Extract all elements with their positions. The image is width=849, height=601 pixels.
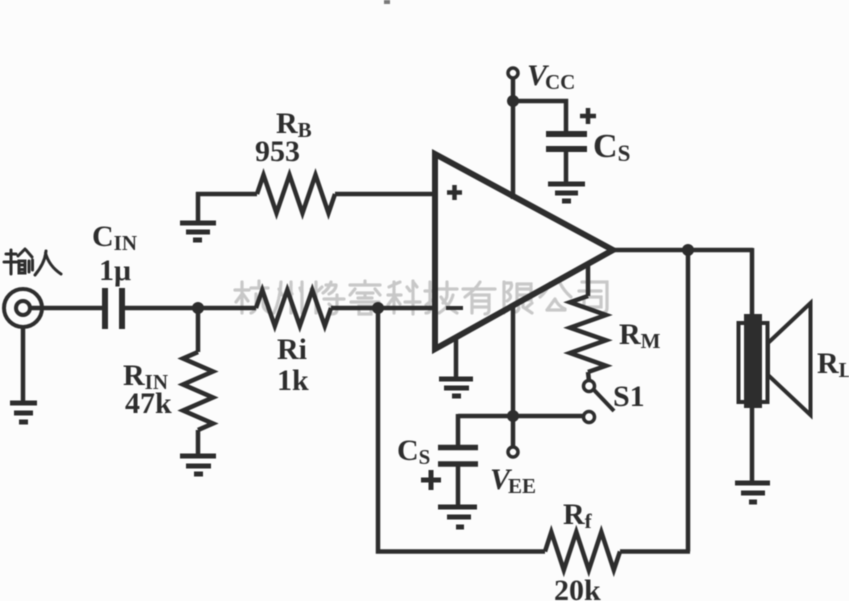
capacitor CIN <box>105 288 122 329</box>
op-amp minus input mark <box>446 306 463 310</box>
wire node A to RIN <box>196 308 201 352</box>
terminal VCC <box>508 68 518 78</box>
resistor Ri <box>256 290 331 326</box>
node output junction <box>682 244 694 256</box>
wire op-amp output <box>610 248 753 253</box>
wire output node down to Rf <box>686 250 691 552</box>
wire node B down to Rf <box>378 308 545 552</box>
plus polarity mark CS bottom <box>421 470 441 490</box>
svg-text:EE: EE <box>508 474 536 498</box>
wire RIN to ground <box>196 430 201 456</box>
top edge speck <box>384 0 390 4</box>
svg-text:Ri: Ri <box>277 333 307 366</box>
wire Ri to node B <box>331 306 378 311</box>
svg-text:RL: RL <box>817 347 849 382</box>
ground CS top <box>548 184 585 201</box>
wire VEE node to switch <box>458 414 583 419</box>
node VEE junction <box>507 410 519 422</box>
svg-text:20k: 20k <box>554 574 601 601</box>
capacitor CS bottom <box>438 448 478 465</box>
svg-text:CIN: CIN <box>92 220 137 255</box>
svg-text:CS: CS <box>397 434 430 469</box>
svg-text:RM: RM <box>619 318 661 353</box>
wire op-amp V- pin to VEE <box>511 304 516 447</box>
svg-text:S1: S1 <box>613 380 645 413</box>
speaker RL driver <box>739 323 768 402</box>
wire node A to Ri <box>198 306 256 311</box>
ground RB <box>180 223 216 240</box>
resistor Rf <box>545 532 620 570</box>
input connector J1 <box>4 289 42 327</box>
wire ground to RB <box>196 192 257 197</box>
resistor RB <box>257 175 335 213</box>
speaker RL cone <box>768 303 811 415</box>
svg-text:47k: 47k <box>125 387 172 420</box>
label 输入 <box>4 249 61 275</box>
wire Rf to output vertical <box>620 549 690 554</box>
wire op-amp ground pin <box>454 337 459 379</box>
ground input <box>10 403 37 422</box>
wire input to CIN <box>29 306 103 311</box>
ground RIN <box>180 456 216 474</box>
watermark 杭州将睿科技有限公司 <box>235 281 607 314</box>
wire input ground stem <box>21 327 26 403</box>
op-amp plus input mark <box>447 185 462 200</box>
ground op-amp <box>439 379 473 396</box>
svg-text:1k: 1k <box>277 364 309 397</box>
wire CS bottom to ground <box>456 464 461 507</box>
svg-text:CC: CC <box>545 70 575 94</box>
wire CS top to ground <box>564 149 569 184</box>
svg-text:953: 953 <box>255 135 300 168</box>
switch S1 <box>584 381 615 423</box>
wire op-amp V+ pin to VCC <box>511 78 516 199</box>
svg-text:CS: CS <box>593 128 630 166</box>
svg-text:Rf: Rf <box>563 498 593 533</box>
wire RB to op-amp non-inverting input <box>335 192 434 197</box>
wire speaker to ground <box>750 406 755 483</box>
wire output to speaker <box>750 248 755 315</box>
terminal VEE <box>508 447 518 457</box>
wire CIN to node A <box>125 306 198 311</box>
wire CS bottom top lead <box>456 414 461 445</box>
resistor RM <box>570 296 606 372</box>
resistor RIN <box>183 352 213 430</box>
capacitor CS top <box>546 134 587 149</box>
wire RB ground stem <box>196 192 201 223</box>
wire node B to op-amp inverting input <box>378 306 434 311</box>
wire VCC node to CS top <box>513 101 566 131</box>
wire RM stem from op-amp output edge <box>586 262 591 296</box>
node VCC junction <box>507 95 519 107</box>
svg-text:1μ: 1μ <box>99 254 131 287</box>
ground RL <box>735 483 770 502</box>
op-amp U1 <box>435 154 613 349</box>
wire RM to switch <box>588 372 589 381</box>
plus polarity mark CS top <box>580 108 596 124</box>
ground CS bottom <box>438 507 477 527</box>
node A junction <box>192 302 204 314</box>
node B junction <box>372 302 384 314</box>
